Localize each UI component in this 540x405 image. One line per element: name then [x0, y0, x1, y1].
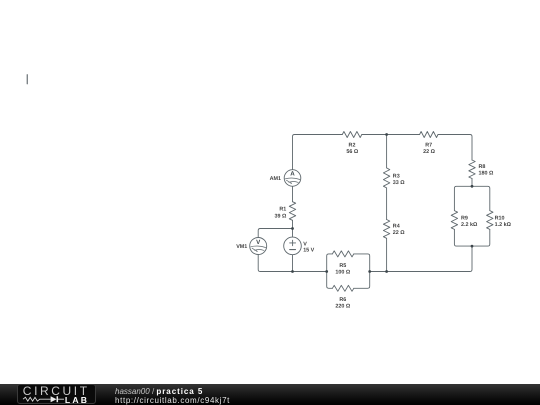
- label R4 value: [393, 223, 405, 236]
- label R8 value: [479, 164, 494, 177]
- label R7 value: [423, 143, 435, 156]
- svg-text:VM1: VM1: [236, 244, 247, 250]
- junction node box left: [325, 270, 328, 273]
- voltage source V1: [284, 237, 302, 255]
- wire node E to R5R6 box right node: [370, 271, 387, 273]
- junction node V bottom: [291, 270, 294, 273]
- wire R9 bottom branch: [454, 229, 472, 246]
- label R5 value: [335, 263, 350, 276]
- logo resistor zigzag: [23, 397, 51, 401]
- label V1 value: [303, 242, 314, 254]
- svg-text:A: A: [290, 171, 295, 178]
- wire parallel box R10 top branch: [472, 186, 490, 210]
- resistor R2: [342, 132, 362, 138]
- wire R5 branch (top of parallel box): [327, 254, 333, 272]
- resistor R6: [332, 285, 353, 291]
- label R6 value: [335, 297, 350, 310]
- label R9 value: [461, 215, 478, 228]
- junction node C: [471, 185, 474, 188]
- wire top left segment (node A to R2): [293, 135, 343, 170]
- resistor R3: [383, 168, 389, 188]
- label R3 value: [393, 174, 405, 187]
- wire ammeter branch: node A to AM1: [292, 169, 294, 171]
- resistor R8: [469, 160, 475, 179]
- resistor R7: [420, 132, 438, 138]
- resistor R9: [451, 211, 457, 230]
- wire R3 to R4: [386, 188, 388, 220]
- junction node B: [385, 133, 388, 136]
- junction node E: [385, 270, 388, 273]
- svg-text:AM1: AM1: [270, 176, 281, 182]
- svg-text:1.2 kΩ: 1.2 kΩ: [495, 222, 512, 228]
- resistor R4: [383, 220, 389, 239]
- footer text: [115, 387, 230, 405]
- junction node F: [291, 227, 294, 230]
- svg-text:2.2 kΩ: 2.2 kΩ: [461, 222, 478, 228]
- resistor R5: [332, 251, 353, 257]
- svg-text:V: V: [256, 239, 261, 246]
- svg-text:39 Ω: 39 Ω: [274, 214, 286, 220]
- svg-text:R6: R6: [339, 297, 346, 303]
- svg-text:100 Ω: 100 Ω: [335, 269, 350, 275]
- wire R6 branch (bottom of parallel box): [327, 272, 333, 289]
- wire VM1 bottom to bottom wire: [258, 255, 292, 272]
- wire node D stub to bottom-right corner: [387, 246, 472, 271]
- svg-text:R5: R5: [339, 263, 346, 269]
- wire node B down to R3: [386, 135, 388, 168]
- ammeter AM1: [284, 170, 301, 187]
- wire node F tee to VM1: [258, 229, 292, 238]
- label R2 value: [346, 143, 358, 156]
- junction node box right: [368, 270, 371, 273]
- cursor mark top-left: [26, 75, 28, 84]
- svg-text:22 Ω: 22 Ω: [393, 230, 405, 236]
- wire R5 to right node: [354, 254, 370, 272]
- svg-text:R7: R7: [425, 143, 432, 149]
- svg-text:220 Ω: 220 Ω: [335, 303, 350, 309]
- voltmeter VM1: [250, 238, 267, 255]
- junction node D: [471, 245, 474, 248]
- wire node B to R7: [387, 134, 420, 136]
- resistor R1: [289, 202, 295, 221]
- wire R8 to node C: [471, 179, 473, 187]
- svg-text:R4: R4: [393, 223, 400, 229]
- svg-text:R9: R9: [461, 215, 468, 221]
- resistor R10: [487, 211, 493, 230]
- CircuitLab logo: [17, 384, 96, 404]
- wire R6 to right node: [354, 272, 370, 289]
- wire bottom left segment V to box: [293, 271, 327, 273]
- svg-text:R2: R2: [349, 143, 356, 149]
- logo diode: [51, 396, 57, 402]
- svg-text:R1: R1: [279, 206, 286, 212]
- wire R2 to node B: [362, 134, 387, 136]
- svg-text:R10: R10: [495, 215, 505, 221]
- wire V1 to bottom node: [292, 255, 294, 272]
- wire R4 to node E: [386, 238, 388, 271]
- svg-text:LAB: LAB: [65, 395, 89, 403]
- wire R7 to top-right corner down to R8: [438, 135, 472, 161]
- svg-text:56 Ω: 56 Ω: [346, 149, 358, 155]
- wire parallel box R9 top branch: [454, 186, 472, 210]
- footer bar: [0, 384, 540, 405]
- svg-text:180 Ω: 180 Ω: [479, 171, 494, 177]
- svg-text:R3: R3: [393, 174, 400, 180]
- label R10 value: [495, 215, 512, 228]
- svg-text:15 V: 15 V: [303, 248, 314, 254]
- svg-text:22 Ω: 22 Ω: [423, 149, 435, 155]
- wire R10 bottom branch: [472, 229, 490, 246]
- label R1 value: [274, 206, 286, 219]
- svg-text:R8: R8: [479, 164, 486, 170]
- wire R1 to node F: [292, 220, 294, 237]
- wire AM1 to R1: [292, 187, 294, 202]
- svg-text:33 Ω: 33 Ω: [393, 180, 405, 186]
